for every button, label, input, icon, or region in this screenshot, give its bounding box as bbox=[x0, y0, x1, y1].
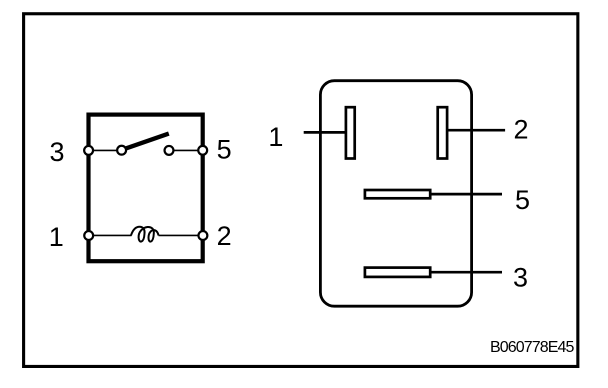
svg-text:5: 5 bbox=[515, 185, 530, 215]
svg-text:3: 3 bbox=[513, 263, 528, 293]
svg-text:3: 3 bbox=[49, 137, 64, 167]
svg-text:B060778E45: B060778E45 bbox=[490, 339, 575, 356]
svg-text:5: 5 bbox=[217, 135, 232, 165]
svg-text:2: 2 bbox=[513, 114, 528, 144]
svg-text:1: 1 bbox=[49, 222, 64, 252]
svg-text:2: 2 bbox=[217, 221, 232, 251]
svg-text:1: 1 bbox=[268, 122, 283, 152]
